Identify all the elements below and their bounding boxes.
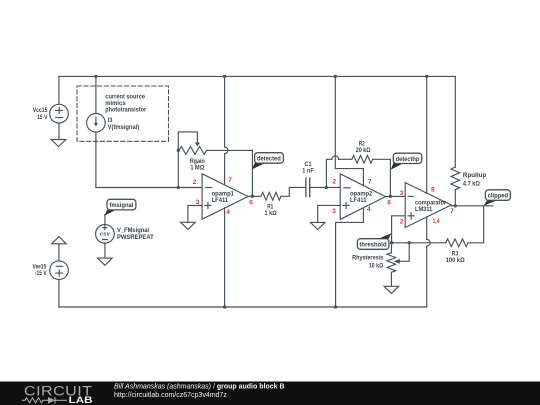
svg-text:CSV: CSV xyxy=(100,231,111,236)
wire Rgain left leg xyxy=(177,150,179,187)
node on top rail (current source) xyxy=(94,75,97,78)
svg-text:3: 3 xyxy=(400,190,404,197)
footer bar xyxy=(0,382,540,405)
resistor Rgain (pot) xyxy=(179,147,207,155)
resistor R3 xyxy=(446,239,468,247)
svg-text:4.7 kΩ: 4.7 kΩ xyxy=(463,180,480,187)
wire V_FMsignal to ground xyxy=(104,243,106,258)
wire opamp1 noninv to ground xyxy=(188,205,202,222)
ground inverted (Vee15) xyxy=(52,237,67,244)
svg-text:-15 V: -15 V xyxy=(35,270,47,277)
svg-text:V(fmsignal): V(fmsignal) xyxy=(108,124,140,131)
wire R1 to C1 xyxy=(281,187,306,196)
wire top rail xyxy=(59,75,455,77)
wire opamp2 output to comparator xyxy=(386,195,406,197)
resistor Rpullup leads xyxy=(454,76,456,167)
resistor R1 xyxy=(261,192,281,200)
svg-text:LF411: LF411 xyxy=(350,197,367,204)
wire opamp2 V+ from rail with jog xyxy=(334,75,337,78)
flag detected xyxy=(252,153,284,170)
ground (opamp2 +) xyxy=(310,222,325,229)
wire C1 to node xyxy=(310,186,341,188)
svg-text:LM311: LM311 xyxy=(415,206,433,213)
resistor R2 xyxy=(352,155,373,163)
wire opamp1 V- down to bottom rail xyxy=(224,208,226,307)
resistor Rhysteresis (pot) xyxy=(387,253,396,273)
svg-text:15 V: 15 V xyxy=(37,114,48,121)
wire opamp2 V- to bottom rail xyxy=(336,208,364,307)
ground (Rhysteresis) xyxy=(384,286,399,293)
node threshold xyxy=(390,241,393,244)
svg-text:100 kΩ: 100 kΩ xyxy=(446,257,465,264)
node bottom rail opamp2 xyxy=(334,305,337,308)
wire threshold rail to R3 xyxy=(392,242,446,244)
svg-text:detected: detected xyxy=(257,155,281,162)
svg-text:1 MΩ: 1 MΩ xyxy=(190,165,204,172)
svg-text:Vcc15: Vcc15 xyxy=(33,107,48,114)
svg-text:7: 7 xyxy=(368,178,372,185)
svg-text:10 kΩ: 10 kΩ xyxy=(369,262,383,269)
node Rgain left xyxy=(177,149,180,152)
wire R2 branch up (hop over supply) xyxy=(326,159,332,187)
svg-text:1 nF: 1 nF xyxy=(302,168,314,175)
ground (opamp1 +) xyxy=(181,222,196,229)
svg-text:detecthp: detecthp xyxy=(396,156,420,163)
svg-text:4: 4 xyxy=(367,206,371,213)
node Rgain bottom tap xyxy=(177,186,180,189)
wire opamp1 V+ from rail (with hop) xyxy=(223,75,226,78)
svg-text:2: 2 xyxy=(400,218,404,225)
ground (V_FMsignal) xyxy=(98,258,113,265)
voltage source Vcc15 xyxy=(50,104,69,123)
svg-text:LAB: LAB xyxy=(69,395,93,405)
wire feedback down to output xyxy=(251,150,253,196)
svg-text:1 kΩ: 1 kΩ xyxy=(265,210,277,217)
svg-text:7: 7 xyxy=(228,177,232,184)
wire Rhysteresis wiper xyxy=(408,241,411,244)
flag detecthp xyxy=(391,153,422,170)
dashed annotation box xyxy=(77,86,169,141)
svg-text:http://circuitlab.com/cz67cp3v: http://circuitlab.com/cz67cp3v4md7z xyxy=(114,392,227,399)
svg-text:LF411: LF411 xyxy=(212,197,229,204)
wire R3 right up to clipped node xyxy=(468,206,484,243)
svg-text:clipped: clipped xyxy=(488,192,508,199)
wire bottom rail xyxy=(59,306,427,308)
node bottom rail opamp1 xyxy=(223,305,226,308)
wire R2 right down to opamp2 output xyxy=(373,159,391,196)
svg-text:3: 3 xyxy=(332,208,336,215)
comparator U3 LM311 triangle xyxy=(405,183,451,228)
wire Rgain wiper loop xyxy=(178,132,197,151)
wire current source top xyxy=(95,76,97,113)
wire current source bottom xyxy=(95,132,97,187)
svg-text:3: 3 xyxy=(196,199,200,206)
flag clipped xyxy=(484,190,511,206)
wire opamp1 output to R1 xyxy=(248,195,261,197)
svg-text:Bill Ashmanskas (ashmanskas) /: Bill Ashmanskas (ashmanskas) / group aud… xyxy=(114,383,285,390)
svg-text:20 kΩ: 20 kΩ xyxy=(356,147,371,154)
svg-text:2: 2 xyxy=(193,179,197,186)
op-amp U2 opamp2 triangle xyxy=(340,174,385,220)
flag fmsignal xyxy=(104,199,136,216)
wire comparator + input down to threshold node xyxy=(392,216,406,243)
wire comparator pins 1,4 down with hop to bottom rail xyxy=(426,217,428,240)
voltage source Vee15 xyxy=(50,261,69,280)
svg-text:Rhysteresis: Rhysteresis xyxy=(352,255,384,262)
resistor Rpullup xyxy=(451,167,460,190)
svg-text:PWSREPEAT: PWSREPEAT xyxy=(117,234,154,241)
svg-text:1,4: 1,4 xyxy=(433,218,440,225)
wire Vee15 bottom xyxy=(58,280,60,308)
svg-text:4: 4 xyxy=(226,209,230,216)
node comparator output xyxy=(454,204,457,207)
node opamp1 output xyxy=(251,195,254,198)
svg-text:fmsignal: fmsignal xyxy=(109,202,133,209)
node C1/R2 xyxy=(325,186,328,189)
current source I3 xyxy=(87,114,106,133)
flag threshold xyxy=(357,233,391,249)
wire Rhysteresis to ground xyxy=(390,272,392,286)
wire comparator V+ pin8 from rail xyxy=(425,75,428,78)
svg-text:6: 6 xyxy=(249,199,253,206)
wire Vee15 top to inverted ground xyxy=(58,244,60,261)
svg-text:phototransistor: phototransistor xyxy=(105,107,146,114)
wire Rgain right to feedback corner xyxy=(207,149,253,151)
svg-text:8: 8 xyxy=(431,186,435,193)
wire comparator output xyxy=(451,205,493,207)
svg-text:Rpullup: Rpullup xyxy=(463,172,487,179)
svg-text:threshold: threshold xyxy=(359,242,386,249)
wire Vcc15 stem xyxy=(58,76,60,104)
wire Vcc15 to ground xyxy=(58,123,60,139)
ground (below Vcc15) xyxy=(51,140,66,147)
svg-text:7: 7 xyxy=(450,208,454,215)
voltage source V_FMsignal xyxy=(104,215,106,225)
node opamp2 output xyxy=(389,195,392,198)
wire opamp2 noninv to ground xyxy=(318,205,341,222)
wire inverting input rail xyxy=(96,187,202,189)
op-amp U1 opamp1 triangle xyxy=(202,174,248,219)
svg-text:2: 2 xyxy=(332,178,336,185)
svg-text:6: 6 xyxy=(387,199,391,206)
capacitor C1 xyxy=(306,178,310,197)
